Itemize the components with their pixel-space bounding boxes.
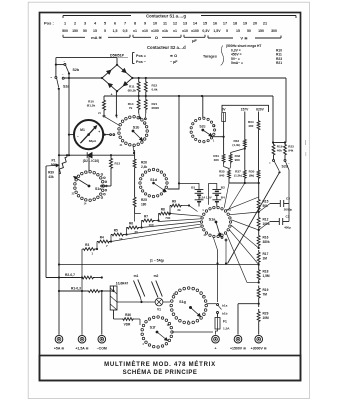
svg-text:B1: B1 xyxy=(191,186,195,190)
switch S2d contacts xyxy=(273,157,275,159)
svg-text:MULTIMÈTRE MOD. 478 MÉTRIX: MULTIMÈTRE MOD. 478 MÉTRIX xyxy=(104,360,216,368)
svg-text:10M: 10M xyxy=(263,316,270,320)
S2c top wire xyxy=(202,96,204,118)
R19 R23 top bus xyxy=(272,142,286,144)
resistor R25 xyxy=(134,169,136,196)
svg-text:S2c: S2c xyxy=(199,125,205,129)
svg-text:50k: 50k xyxy=(51,163,57,167)
rotary switch S2c xyxy=(213,129,215,131)
svg-text:–: – xyxy=(77,135,79,139)
VDR resistor R36 xyxy=(113,310,115,319)
svg-text:(500Hz shunt mega HT: (500Hz shunt mega HT xyxy=(226,44,261,48)
svg-text:R9: R9 xyxy=(172,199,176,203)
capacitor C2 xyxy=(270,221,279,223)
svg-text:~: ~ xyxy=(62,72,64,76)
divider fan diagonals to S1a xyxy=(224,183,229,208)
rotary switch S1g xyxy=(205,304,208,307)
svg-text:2,4k: 2,4k xyxy=(141,165,147,169)
resistor R13 on diode row xyxy=(110,154,112,156)
bus y96 mid horizontal xyxy=(104,95,273,97)
fuse F1 xyxy=(215,318,220,330)
meter terminals xyxy=(69,134,74,136)
resistor R18 xyxy=(257,267,260,283)
svg-text:B4: B4 xyxy=(221,195,225,199)
svg-text:9: 9 xyxy=(144,21,146,25)
svg-text:M1: M1 xyxy=(80,128,85,132)
resistor R34 xyxy=(257,119,260,132)
svg-text:Ø0,3k: Ø0,3k xyxy=(128,89,137,93)
resistor R26 xyxy=(134,150,136,158)
wire S1e top xyxy=(88,155,90,171)
wire S2a common +5A bus xyxy=(58,89,60,335)
svg-text:17: 17 xyxy=(223,21,227,25)
wire R13 to S1e xyxy=(110,172,112,187)
svg-text:5mA~ =: 5mA~ = xyxy=(231,61,243,65)
svg-text:b1b: b1b xyxy=(222,312,228,316)
svg-text:S1d: S1d xyxy=(150,178,158,182)
svg-text:1,5: 1,5 xyxy=(113,29,118,33)
S1e outer contact arc xyxy=(101,174,103,176)
svg-text:Ø300: Ø300 xyxy=(152,106,160,110)
wire R33 to R32 xyxy=(231,149,245,153)
svg-text:2k: 2k xyxy=(177,208,181,212)
svg-text:V1: V1 xyxy=(157,307,161,311)
svg-text:180: 180 xyxy=(141,202,147,206)
ladder top wire xyxy=(258,183,260,197)
resistor R12 xyxy=(257,215,260,230)
svg-text:15: 15 xyxy=(203,21,207,25)
svg-text:Contacteur S2 a…d: Contacteur S2 a…d xyxy=(147,45,186,50)
wire S1f to + terminal xyxy=(172,331,213,333)
svg-text:360: 360 xyxy=(214,158,219,162)
svg-text:15: 15 xyxy=(93,29,97,33)
fuse under 0V xyxy=(222,113,226,122)
svg-text:mA ≅: mA ≅ xyxy=(91,35,102,40)
terminal +3000V xyxy=(255,335,263,343)
ohm group brace xyxy=(133,36,151,38)
svg-text:~: ~ xyxy=(288,161,290,165)
resistor R37 xyxy=(243,169,246,181)
svg-text:300: 300 xyxy=(271,29,277,33)
rectifier bridge diamond xyxy=(102,65,132,91)
rotary switch S1b xyxy=(146,130,149,133)
mA group brace xyxy=(63,36,85,38)
resistor R11 xyxy=(137,78,140,96)
svg-text:x10: x10 xyxy=(142,29,148,33)
svg-text:R8: R8 xyxy=(161,207,165,211)
svg-text:380k: 380k xyxy=(263,240,270,244)
svg-text:7k: 7k xyxy=(129,106,133,110)
svg-text:–COM: –COM xyxy=(97,346,107,350)
switch S2b xyxy=(56,57,117,59)
svg-text:13: 13 xyxy=(183,21,187,25)
switch contact b1a xyxy=(217,304,219,306)
svg-text:S2b: S2b xyxy=(73,68,80,72)
title block box xyxy=(40,356,301,381)
terminal +5A xyxy=(55,335,63,343)
wire 157V down xyxy=(244,112,246,139)
svg-text:19: 19 xyxy=(243,21,247,25)
svg-text:R5: R5 xyxy=(114,228,118,232)
resistor R33 xyxy=(243,138,246,149)
svg-text:VDR: VDR xyxy=(124,322,131,326)
bridge top wire xyxy=(116,58,118,65)
svg-text:940: 940 xyxy=(219,174,224,178)
svg-text:Ø1,5k: Ø1,5k xyxy=(87,104,96,108)
svg-text:+3000V ≅: +3000V ≅ xyxy=(251,346,267,350)
svg-text:~ µF: ~ µF xyxy=(170,60,178,64)
S2 mode table xyxy=(132,53,134,64)
svg-text:x1: x1 xyxy=(173,29,177,33)
resistor R17 xyxy=(257,250,260,265)
svg-text:150: 150 xyxy=(258,29,264,33)
S1d bottom wire xyxy=(135,213,141,215)
svg-text:Pos :: Pos : xyxy=(44,20,54,25)
switch S2a xyxy=(62,77,64,79)
svg-text:≅ Ω: ≅ Ω xyxy=(170,54,177,58)
svg-text:400p: 400p xyxy=(284,226,291,230)
meter M1 xyxy=(74,120,103,149)
resistor R19b 40k xyxy=(272,143,275,158)
svg-text:Pos =: Pos = xyxy=(136,54,146,58)
resistor R10 xyxy=(103,96,106,115)
shunt block xyxy=(110,286,117,310)
svg-text:500: 500 xyxy=(62,29,68,33)
svg-text:1,5A: 1,5A xyxy=(223,327,230,331)
resistor R1 xyxy=(59,290,87,292)
scan speck marks xyxy=(305,140,307,145)
svg-text:2: 2 xyxy=(74,21,76,25)
wire R33 down to R37 xyxy=(244,149,246,169)
svg-text:7: 7 xyxy=(124,21,126,25)
svg-text:C2: C2 xyxy=(286,215,290,219)
svg-text:(9k): (9k) xyxy=(249,174,254,178)
svg-text:x10: x10 xyxy=(182,29,188,33)
svg-text:10: 10 xyxy=(153,21,157,25)
svg-text:900: 900 xyxy=(235,158,240,162)
drawing frame border xyxy=(40,13,301,381)
svg-text:=: = xyxy=(269,161,271,165)
resistor R30 xyxy=(257,169,260,181)
svg-text:(1 – 5A)µ: (1 – 5A)µ xyxy=(150,258,164,262)
svg-text:R3: R3 xyxy=(85,243,89,247)
resistor R22 xyxy=(144,78,147,96)
wire to bridge left xyxy=(64,77,102,79)
svg-text:+: + xyxy=(214,346,216,350)
svg-text:20: 20 xyxy=(253,21,257,25)
svg-text:x100: x100 xyxy=(151,29,159,33)
capacitor C3 xyxy=(270,203,280,205)
resistor R32 xyxy=(229,153,232,165)
svg-text:R36: R36 xyxy=(125,313,131,317)
svg-text:7M: 7M xyxy=(263,292,268,296)
svg-text:30: 30 xyxy=(134,230,138,234)
svg-text:157V: 157V xyxy=(241,108,250,112)
svg-text:21: 21 xyxy=(263,21,267,25)
svg-text:+1500V ≅: +1500V ≅ xyxy=(230,346,246,350)
svg-text:F1: F1 xyxy=(223,320,227,324)
battery stack right xyxy=(209,184,217,205)
R3 left end wire down (+1,5A) xyxy=(81,249,83,335)
loop left vertical x179 xyxy=(168,96,180,189)
svg-text:R2-0,7: R2-0,7 xyxy=(65,273,75,277)
svg-text:S1b: S1b xyxy=(133,126,140,130)
S1b bottom wire xyxy=(132,145,135,152)
svg-text:x1: x1 xyxy=(133,29,137,33)
svg-text:R13: R13 xyxy=(115,162,121,166)
wire R7 row link xyxy=(134,214,136,222)
divider bottom bus xyxy=(228,180,230,183)
S1a bottom contact wires xyxy=(213,237,217,250)
R9 right end wire xyxy=(182,205,189,207)
svg-text:(1,4k): (1,4k) xyxy=(232,143,240,147)
svg-text:10: 10 xyxy=(119,237,123,241)
svg-text:D5M51P: D5M51P xyxy=(110,54,125,58)
resistor R16 xyxy=(257,233,260,248)
bridge diode arms xyxy=(122,68,127,73)
mid horizontal bus y264.5 xyxy=(59,264,259,266)
potentiometer P1 xyxy=(59,157,68,174)
svg-text:0,5A 1,5V: 0,5A 1,5V xyxy=(199,196,211,200)
svg-text:11: 11 xyxy=(163,21,167,25)
svg-text:15: 15 xyxy=(236,29,240,33)
svg-text:S1e: S1e xyxy=(95,187,101,191)
wire R32 down xyxy=(229,164,232,169)
svg-text:94k: 94k xyxy=(288,149,293,153)
resistor R21 xyxy=(144,96,147,113)
svg-text:40k: 40k xyxy=(277,149,282,153)
ladder bottom wire to 3000V terminal xyxy=(258,324,260,335)
svg-text:µF: µF xyxy=(192,38,197,43)
svg-text:V ≅: V ≅ xyxy=(240,36,248,41)
wire bridge bottom down to S1b xyxy=(115,91,117,115)
svg-text:Pos ~: Pos ~ xyxy=(136,60,147,64)
svg-text:12: 12 xyxy=(173,21,177,25)
resistor R19 xyxy=(257,286,260,301)
diode D2 row wire xyxy=(59,154,135,156)
diode D2 xyxy=(87,152,92,158)
wire 620V down xyxy=(258,112,260,120)
svg-text:R21: R21 xyxy=(276,61,282,65)
lamp V1 xyxy=(155,298,163,306)
jack m1 xyxy=(134,281,141,298)
svg-text:1,5M: 1,5M xyxy=(263,274,270,278)
svg-text:=: = xyxy=(50,76,52,80)
contacteur S1 bracket xyxy=(63,15,131,17)
svg-text:100: 100 xyxy=(148,223,153,227)
rotary switch S1e xyxy=(102,185,105,188)
svg-text:S1f: S1f xyxy=(150,326,157,330)
svg-text:18: 18 xyxy=(233,21,237,25)
svg-text:0,5: 0,5 xyxy=(123,29,128,33)
battery stack left xyxy=(179,183,199,189)
svg-text:3: 3 xyxy=(84,21,86,25)
svg-text:400: 400 xyxy=(248,124,253,128)
svg-text:+5A ≅: +5A ≅ xyxy=(54,346,64,350)
svg-text:5: 5 xyxy=(104,21,106,25)
svg-text:700: 700 xyxy=(165,216,170,220)
wire R31 to R35 xyxy=(224,164,229,169)
fuse to terminal wire xyxy=(216,329,218,335)
resistor R23 94k xyxy=(284,143,287,158)
svg-text:88µA: 88µA xyxy=(89,139,97,143)
resistor R9 xyxy=(170,204,182,207)
resistor R2 xyxy=(46,277,81,279)
svg-text:+1,5A ≅: +1,5A ≅ xyxy=(75,346,88,350)
wire lamp to S1g xyxy=(163,301,170,303)
svg-text:1: 1 xyxy=(64,21,66,25)
svg-text:0,6k: 0,6k xyxy=(152,88,158,92)
S2c pole wire to divider xyxy=(212,136,224,138)
svg-text:16: 16 xyxy=(213,21,217,25)
wire loop x273 down xyxy=(272,96,274,143)
resistor R6 xyxy=(127,226,140,229)
svg-text:Contacteur S1 a….g: Contacteur S1 a….g xyxy=(146,13,186,18)
svg-text:x100: x100 xyxy=(191,29,199,33)
svg-text:S1g: S1g xyxy=(179,300,186,304)
V group brace xyxy=(208,37,233,39)
1500V branch wire xyxy=(238,303,259,305)
resistor R29 xyxy=(257,309,260,324)
terminal +1,5A xyxy=(78,335,86,343)
resistor R15 xyxy=(257,197,260,212)
svg-text:150: 150 xyxy=(72,29,78,33)
svg-text:50: 50 xyxy=(247,29,251,33)
resistor R4 xyxy=(97,240,111,243)
svg-text:m2: m2 xyxy=(154,274,159,278)
terminal -COM xyxy=(98,335,106,343)
resistor R7 xyxy=(142,219,155,222)
S2d pole wire down-left xyxy=(228,172,280,263)
svg-text:R4: R4 xyxy=(100,235,104,239)
svg-text:5: 5 xyxy=(226,29,228,33)
svg-text:1M: 1M xyxy=(263,256,268,260)
resistor R5 xyxy=(111,233,125,236)
S1a fan east wires xyxy=(226,197,259,210)
cap vertical wire x289 xyxy=(285,161,289,221)
svg-text:R6: R6 xyxy=(129,221,133,225)
P1 wiper bus down x46 xyxy=(45,166,47,278)
rotary switch S1f xyxy=(171,331,174,334)
rotary switch S1a xyxy=(229,221,231,223)
svg-text:8: 8 xyxy=(134,21,136,25)
wire right loop down x286 xyxy=(285,78,287,143)
svg-text:S1a: S1a xyxy=(209,218,217,222)
svg-text:B3: B3 xyxy=(221,186,225,190)
terminal +1500V xyxy=(234,335,242,343)
svg-text:+: + xyxy=(98,130,100,134)
svg-text:~: ~ xyxy=(63,59,65,63)
resistor R31 xyxy=(222,153,225,165)
resistor R14 xyxy=(137,96,140,113)
svg-text:b1a: b1a xyxy=(222,304,228,308)
svg-text:C3: C3 xyxy=(286,197,290,201)
-COM bus wire xyxy=(101,291,103,335)
P1 wiper arrow xyxy=(46,164,59,167)
svg-text:1,5V: 1,5V xyxy=(213,29,221,33)
resistor R35 xyxy=(228,169,231,181)
uF group brace xyxy=(184,36,205,38)
svg-text:2000p: 2000p xyxy=(284,208,293,212)
svg-text:0,3V: 0,3V xyxy=(202,29,210,33)
svg-text:(1,5k): (1,5k) xyxy=(234,174,242,178)
rotary switch S1d xyxy=(166,182,168,184)
svg-text:5: 5 xyxy=(104,29,106,33)
svg-text:m1: m1 xyxy=(134,274,139,278)
svg-text:620V: 620V xyxy=(256,108,265,112)
S1a aux contact xyxy=(221,237,223,239)
svg-text:50: 50 xyxy=(83,29,87,33)
terminal + xyxy=(212,335,220,343)
wire S2b common bus xyxy=(68,74,70,156)
resistor R3 xyxy=(82,248,96,251)
HT winding box top xyxy=(222,105,269,112)
wire shunt to lamp xyxy=(117,301,155,303)
svg-text:43k: 43k xyxy=(48,175,54,179)
wire 0V to R31 xyxy=(223,122,225,153)
svg-text:6: 6 xyxy=(114,21,116,25)
wire R34 to R30 xyxy=(258,132,260,169)
svg-text:R7: R7 xyxy=(144,214,148,218)
switch contact b1b xyxy=(217,312,219,314)
S1a fan west wires xyxy=(170,214,202,217)
svg-text:(D2 – IC10): (D2 – IC10) xyxy=(83,159,99,163)
wire R10 to S1b xyxy=(105,117,120,126)
svg-text:SCHÉMA DE PRINCIPE: SCHÉMA DE PRINCIPE xyxy=(123,368,198,376)
bus y78 bridge right to far right xyxy=(132,77,286,79)
S1g right wire xyxy=(207,303,217,305)
svg-text:Tarages: Tarages xyxy=(203,55,217,59)
jack m2 xyxy=(152,282,159,298)
resistor R8 xyxy=(159,212,172,215)
svg-text:10,6R47: 10,6R47 xyxy=(116,281,129,285)
svg-text:R1-0,3: R1-0,3 xyxy=(71,287,81,291)
svg-text:x1k: x1k xyxy=(162,29,168,33)
